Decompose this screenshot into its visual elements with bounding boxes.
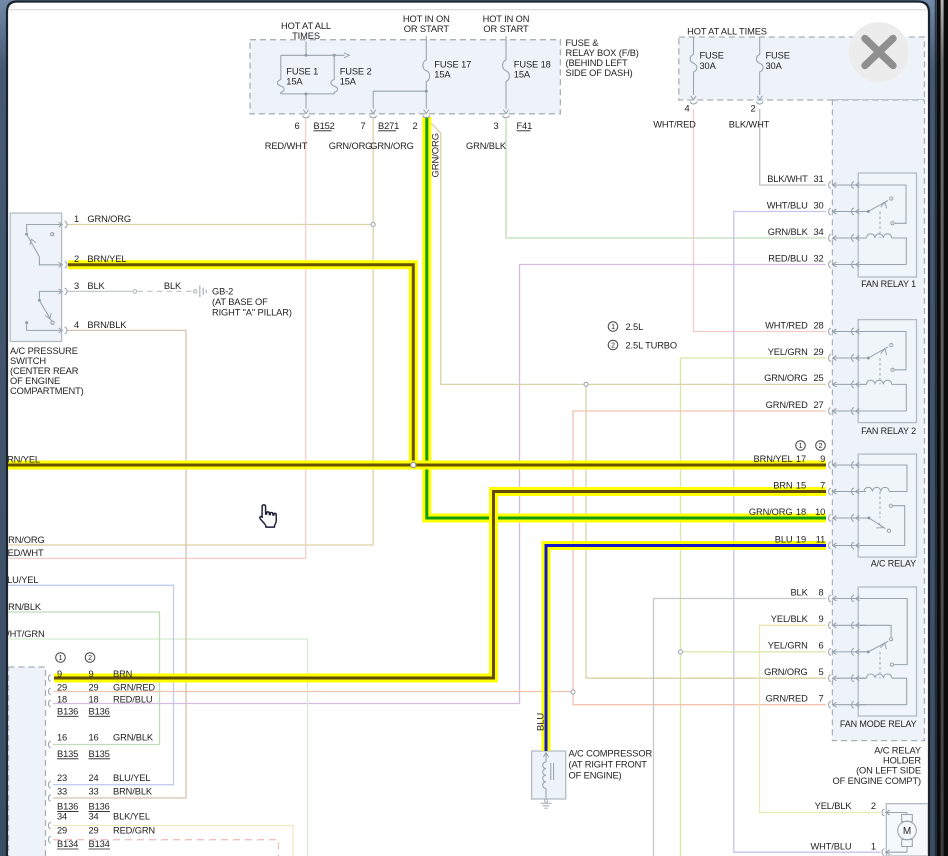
wire GRN/BLK fuse18 pin3 to fan relay1 pin34 xyxy=(506,119,826,238)
svg-text:17: 17 xyxy=(796,454,806,464)
svg-text:B136: B136 xyxy=(57,801,78,811)
svg-text:TIMES: TIMES xyxy=(292,31,320,41)
svg-text:BRN: BRN xyxy=(113,669,132,679)
fan relay 2 pin line 3 coil xyxy=(832,383,866,385)
blower motor box xyxy=(886,804,928,856)
relay A/C RELAY internals xyxy=(832,464,866,466)
svg-text:B136: B136 xyxy=(89,706,110,716)
svg-text:RED/GRN: RED/GRN xyxy=(113,825,155,835)
fuse F17 15A xyxy=(425,36,427,59)
svg-text:B135: B135 xyxy=(89,749,110,759)
wire BLU/YEL left feed to connector 23 xyxy=(7,585,174,784)
svg-text:GRN/ORG: GRN/ORG xyxy=(329,141,373,151)
svg-text:OR START: OR START xyxy=(483,24,529,34)
fuse F1 15A xyxy=(280,55,282,78)
svg-text:RED/BLU: RED/BLU xyxy=(113,695,152,705)
header hairline xyxy=(8,9,928,11)
svg-text:(CENTER REAR: (CENTER REAR xyxy=(10,366,79,376)
svg-text:7: 7 xyxy=(820,480,825,490)
svg-text:18: 18 xyxy=(89,695,99,705)
svg-text:3: 3 xyxy=(74,281,79,291)
wire BLK/YEL connector 34 down off page xyxy=(53,826,293,856)
right fuse box (dashed, hot at all times) xyxy=(679,37,925,100)
svg-text:B134: B134 xyxy=(89,839,110,849)
A/C pressure switch box xyxy=(10,213,61,341)
svg-text:FAN RELAY 2: FAN RELAY 2 xyxy=(861,426,916,436)
inline connector BLK wire xyxy=(133,290,137,294)
fan relay 1 box xyxy=(858,173,916,277)
fan relay 1 pin line 3 coil xyxy=(832,237,866,239)
svg-text:SIDE OF DASH): SIDE OF DASH) xyxy=(566,68,633,78)
svg-text:1: 1 xyxy=(799,443,803,450)
svg-text:34: 34 xyxy=(813,227,823,237)
fuse 30A left xyxy=(693,37,695,53)
compressor ground xyxy=(544,799,547,802)
svg-text:GRN/BLK: GRN/BLK xyxy=(466,141,507,151)
svg-text:FUSE 18: FUSE 18 xyxy=(514,59,551,69)
svg-text:30A: 30A xyxy=(766,61,783,71)
svg-text:33: 33 xyxy=(89,787,99,797)
pin 6 drop xyxy=(305,94,307,109)
svg-text:B152: B152 xyxy=(314,121,335,131)
svg-text:RED/WHT: RED/WHT xyxy=(265,141,308,151)
A/C relay holder box (dashed) xyxy=(832,100,924,741)
svg-text:B271: B271 xyxy=(378,121,399,131)
svg-text:31: 31 xyxy=(813,174,823,184)
svg-text:15A: 15A xyxy=(340,76,357,86)
wire GRN/ORG branch fuse17 to fan relay2 pin25 xyxy=(428,120,826,384)
svg-text:BRN: BRN xyxy=(773,480,792,490)
wire hot-at-all-times stub xyxy=(305,42,307,56)
svg-text:BRN/BLK: BRN/BLK xyxy=(113,787,153,797)
wire GRN/BLK left feed to connector 16 xyxy=(7,612,160,745)
wire GRN/RED splice to fan mode relay pin7 xyxy=(573,692,826,705)
svg-text:FUSE &: FUSE & xyxy=(566,38,600,48)
svg-text:1: 1 xyxy=(611,324,615,331)
svg-text:3: 3 xyxy=(493,121,498,131)
svg-text:FUSE: FUSE xyxy=(700,50,724,60)
svg-text:YEL/GRN: YEL/GRN xyxy=(768,641,808,651)
wire RED/GRN connector 29 dashed option xyxy=(53,840,279,856)
splice GRN/ORG relay branch junction xyxy=(584,382,588,386)
svg-text:GRN/ORG: GRN/ORG xyxy=(764,373,808,383)
fan relay 2 pin line 4 xyxy=(832,410,866,412)
fan relay 2 pin line 1 xyxy=(832,331,866,333)
svg-text:WHT/RED: WHT/RED xyxy=(765,320,808,330)
relay FAN MODE RELAY internals xyxy=(832,598,866,600)
mouse cursor xyxy=(260,505,276,527)
fuse 30A right xyxy=(759,37,761,53)
svg-text:RELAY BOX (F/B): RELAY BOX (F/B) xyxy=(566,48,639,58)
svg-text:WHT/BLU: WHT/BLU xyxy=(767,200,808,210)
svg-text:15: 15 xyxy=(796,480,806,490)
svg-text:2: 2 xyxy=(412,121,417,131)
svg-text:HOT IN ON: HOT IN ON xyxy=(483,14,530,24)
svg-text:5: 5 xyxy=(819,667,824,677)
svg-text:2: 2 xyxy=(74,254,79,264)
svg-text:YEL/GRN: YEL/GRN xyxy=(768,347,808,357)
fan relay 2 box xyxy=(858,320,916,423)
svg-text:18: 18 xyxy=(57,695,67,705)
fan relay 1 pin line 1 xyxy=(832,184,866,186)
wire GRN/RED fan relay2 pin27 to splice xyxy=(573,411,826,692)
fan relay 1 pin line 4 xyxy=(832,264,866,266)
svg-text:1: 1 xyxy=(59,655,63,662)
fan relay 2 pin line 2 switch common xyxy=(832,357,866,359)
svg-text:B136: B136 xyxy=(89,801,110,811)
svg-text:GRN/ORG: GRN/ORG xyxy=(764,667,808,677)
svg-text:29: 29 xyxy=(813,347,823,357)
svg-text:HOLDER: HOLDER xyxy=(883,756,921,766)
svg-text:A/C COMPRESSOR: A/C COMPRESSOR xyxy=(569,748,653,758)
svg-text:6: 6 xyxy=(294,121,299,131)
right scrollbar black area xyxy=(937,0,948,856)
svg-text:29: 29 xyxy=(89,825,99,835)
svg-text:BRN/YEL: BRN/YEL xyxy=(87,254,126,264)
svg-text:B134: B134 xyxy=(57,839,78,849)
fuse bus bottom xyxy=(281,93,334,95)
svg-text:1: 1 xyxy=(871,841,876,851)
svg-text:BLU: BLU xyxy=(775,534,793,544)
wire WHT/GRN left feed down off page xyxy=(7,639,308,856)
svg-text:B136: B136 xyxy=(57,706,78,716)
svg-text:16: 16 xyxy=(89,733,99,743)
svg-text:RIGHT "A" PILLAR): RIGHT "A" PILLAR) xyxy=(212,308,292,318)
junction BRN/YEL xyxy=(411,462,416,467)
splice YEL/GRN junction xyxy=(679,650,683,654)
svg-text:24: 24 xyxy=(89,773,99,783)
wire BRN/YEL (highlighted) main feed across page xyxy=(7,461,826,470)
svg-text:GRN/BLK: GRN/BLK xyxy=(768,227,809,237)
svg-text:WHT/RED: WHT/RED xyxy=(653,119,696,129)
wire RED/BLU fan relay1 pin32 to connector 18 xyxy=(53,265,826,704)
svg-text:30: 30 xyxy=(813,200,823,210)
svg-text:BLK: BLK xyxy=(87,281,105,291)
wire WHT/BLU fan relay1 pin30 to blower motor pin1 xyxy=(734,212,881,853)
switch pin cups xyxy=(59,222,63,227)
close button xyxy=(849,22,909,82)
wire BRN/BLK switch pin4 to connector 33 xyxy=(53,330,186,798)
switch contacts low pressure xyxy=(39,291,61,298)
connector column markers xyxy=(56,653,66,663)
fan relay 1 pin line 2 switch common xyxy=(832,211,866,213)
svg-text:A/C RELAY: A/C RELAY xyxy=(874,745,921,755)
svg-text:2: 2 xyxy=(750,103,755,113)
svg-text:8: 8 xyxy=(819,587,824,597)
svg-text:WHT/BLU: WHT/BLU xyxy=(811,841,852,851)
svg-text:9: 9 xyxy=(89,669,94,679)
svg-text:HOT AT ALL TIMES: HOT AT ALL TIMES xyxy=(687,27,767,37)
svg-text:YEL/BLK: YEL/BLK xyxy=(815,801,853,811)
svg-text:BLK/WHT: BLK/WHT xyxy=(767,174,808,184)
svg-text:6: 6 xyxy=(819,641,824,651)
svg-text:10: 10 xyxy=(815,507,825,517)
fuse bus top xyxy=(281,54,345,56)
svg-text:15A: 15A xyxy=(434,69,451,79)
svg-text:16: 16 xyxy=(57,733,67,743)
blower motor M xyxy=(885,812,907,814)
svg-text:(AT BASE OF: (AT BASE OF xyxy=(212,297,268,307)
svg-text:GRN/RED: GRN/RED xyxy=(766,694,808,704)
A/C compressor box xyxy=(532,751,566,799)
svg-text:(AT RIGHT FRONT: (AT RIGHT FRONT xyxy=(569,759,648,769)
wire RED/WHT fuse pin6 vertical + left feed xyxy=(7,119,306,558)
fan mode relay box xyxy=(858,587,916,716)
svg-text:GRN/ORG: GRN/ORG xyxy=(87,214,131,224)
svg-text:18: 18 xyxy=(796,507,806,517)
svg-text:FUSE 17: FUSE 17 xyxy=(434,59,471,69)
svg-text:GRN/RED: GRN/RED xyxy=(766,400,808,410)
svg-text:34: 34 xyxy=(57,812,67,822)
svg-text:28: 28 xyxy=(813,320,823,330)
wire BLK switch pin3 to ground GB-2 xyxy=(68,290,133,292)
svg-text:9: 9 xyxy=(819,614,824,624)
svg-text:(BEHIND LEFT: (BEHIND LEFT xyxy=(566,58,629,68)
wire BLK fan mode relay pin8 down off page xyxy=(654,599,827,856)
svg-text:A/C RELAY: A/C RELAY xyxy=(871,559,916,569)
wire BLK/WHT right fuse to fan relay1 pin31 xyxy=(760,109,826,185)
svg-text:BLK: BLK xyxy=(164,281,182,291)
pin 7 branch xyxy=(373,91,426,109)
svg-text:OF ENGINE: OF ENGINE xyxy=(10,376,60,386)
svg-text:4: 4 xyxy=(74,320,79,330)
wire YEL/GRN fan relay2 pin29 down off page xyxy=(681,358,827,856)
svg-text:HOT AT ALL: HOT AT ALL xyxy=(281,21,331,31)
splice GRN/ORG pin1 junction xyxy=(371,223,375,227)
wire GRN/ORG (highlighted) fuse17 to A/C relay pin18 xyxy=(427,117,826,518)
svg-text:2: 2 xyxy=(871,801,876,811)
svg-text:25: 25 xyxy=(813,373,823,383)
svg-text:FUSE 1: FUSE 1 xyxy=(286,66,318,76)
svg-text:FAN RELAY 1: FAN RELAY 1 xyxy=(861,279,916,289)
svg-text:15A: 15A xyxy=(514,69,531,79)
wire GRN/ORG switch pin1 to splice xyxy=(68,224,374,226)
svg-text:7: 7 xyxy=(360,121,365,131)
svg-text:19: 19 xyxy=(796,534,806,544)
svg-text:B135: B135 xyxy=(57,749,78,759)
svg-text:11: 11 xyxy=(816,534,825,544)
svg-text:2: 2 xyxy=(88,655,92,662)
svg-text:BLK: BLK xyxy=(790,587,808,597)
svg-text:BRN/YEL: BRN/YEL xyxy=(754,454,793,464)
svg-text:9: 9 xyxy=(57,669,62,679)
svg-text:GB-2: GB-2 xyxy=(212,286,233,296)
svg-text:F41: F41 xyxy=(517,121,533,131)
svg-text:GRN/BLK: GRN/BLK xyxy=(113,733,154,743)
svg-text:2: 2 xyxy=(819,443,823,450)
svg-text:BLU: BLU xyxy=(536,713,547,731)
legend 2.5L xyxy=(608,322,618,332)
svg-text:4: 4 xyxy=(684,103,689,113)
svg-text:GRN/ORG: GRN/ORG xyxy=(749,507,793,517)
svg-text:FUSE: FUSE xyxy=(766,50,790,60)
svg-text:OR START: OR START xyxy=(404,24,450,34)
svg-text:BRN/BLK: BRN/BLK xyxy=(87,320,127,330)
wire WHT/RED right fuse to fan relay2 pin28 xyxy=(694,109,827,332)
fuse F18 15A xyxy=(505,36,507,59)
wire GRN/RED connector 29 to splice xyxy=(53,691,573,693)
svg-text:15A: 15A xyxy=(286,76,303,86)
svg-text:RED/BLU: RED/BLU xyxy=(768,253,807,263)
svg-text:BLK/WHT: BLK/WHT xyxy=(729,119,770,129)
svg-text:2.5L: 2.5L xyxy=(626,322,644,332)
svg-text:27: 27 xyxy=(813,400,823,410)
svg-text:1: 1 xyxy=(74,214,79,224)
switch contacts high pressure xyxy=(27,225,62,233)
wire YEL/BLK fan mode relay pin9 to blower motor pin2 xyxy=(760,625,881,812)
connector cups bottom-left xyxy=(48,675,50,682)
svg-text:GRN/ORG: GRN/ORG xyxy=(370,141,414,151)
svg-text:FAN MODE RELAY: FAN MODE RELAY xyxy=(840,719,917,729)
svg-text:32: 32 xyxy=(813,253,823,263)
svg-text:GRN/ORG: GRN/ORG xyxy=(431,133,442,178)
svg-text:GRN/RED: GRN/RED xyxy=(113,683,155,693)
wire GRN/ORG fuse pin7 vertical + left feed xyxy=(372,119,374,545)
wire BRN/YEL (highlighted) switch pin2 branch xyxy=(68,265,413,465)
wire GRN/ORG branch to fan mode relay pin5 xyxy=(586,384,826,678)
svg-text:BLU/YEL: BLU/YEL xyxy=(113,773,150,783)
svg-text:29: 29 xyxy=(89,683,99,693)
svg-text:9: 9 xyxy=(820,454,825,464)
fuse &amp; relay box F/B (dashed) xyxy=(250,40,560,114)
svg-text:OF ENGINE COMPT): OF ENGINE COMPT) xyxy=(833,776,921,786)
svg-text:M: M xyxy=(903,826,911,837)
svg-text:BLK/YEL: BLK/YEL xyxy=(113,812,150,822)
svg-text:7: 7 xyxy=(819,694,824,704)
svg-text:HOT IN ON: HOT IN ON xyxy=(403,14,450,24)
svg-text:23: 23 xyxy=(57,773,67,783)
svg-text:YEL/BLK: YEL/BLK xyxy=(771,614,809,624)
wire BLU (highlighted) A/C relay pin19 to compressor xyxy=(546,546,826,752)
ground GB-2 xyxy=(194,290,197,293)
svg-text:2.5L TURBO: 2.5L TURBO xyxy=(626,340,678,350)
splice GRN/RED junction xyxy=(571,690,575,694)
column markers 1 2 above A/C relay xyxy=(796,441,806,451)
svg-text:29: 29 xyxy=(57,825,67,835)
svg-text:OF ENGINE): OF ENGINE) xyxy=(569,770,622,780)
svg-text:SWITCH: SWITCH xyxy=(10,356,46,366)
svg-text:A/C PRESSURE: A/C PRESSURE xyxy=(10,346,78,356)
svg-text:34: 34 xyxy=(89,812,99,822)
svg-text:33: 33 xyxy=(57,787,67,797)
svg-text:29: 29 xyxy=(57,683,67,693)
bottom-left connector box (dashed) xyxy=(9,667,46,856)
svg-text:COMPARTMENT): COMPARTMENT) xyxy=(10,386,84,396)
A/C compressor coil + clutch xyxy=(543,753,548,757)
svg-text:30A: 30A xyxy=(700,61,717,71)
wire BRN (highlighted) connector 9 to A/C relay pin15 xyxy=(54,492,826,679)
svg-text:(ON LEFT SIDE: (ON LEFT SIDE xyxy=(856,766,921,776)
wire YEL/GRN branch to fan mode relay pin6 xyxy=(681,651,827,653)
fuse F2 15A xyxy=(333,55,335,78)
a/c relay box xyxy=(858,454,916,557)
svg-text:2: 2 xyxy=(611,343,615,350)
svg-text:FUSE 2: FUSE 2 xyxy=(340,66,372,76)
